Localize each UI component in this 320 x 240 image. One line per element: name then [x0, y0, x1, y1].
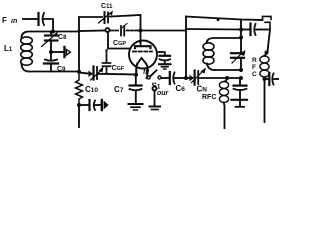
capacitor fil bypass — [160, 56, 171, 64]
triode tube V1 — [129, 31, 157, 79]
ground below terminal — [150, 107, 161, 110]
svg-text:C6: C6 — [176, 84, 186, 93]
junction RFC right bottom — [263, 77, 267, 81]
wire B plus lead down — [264, 79, 266, 122]
terminal below switch — [153, 87, 157, 106]
variable capacitor plate tank — [231, 38, 246, 70]
svg-text:L1: L1 — [4, 44, 13, 53]
wire bias lead down — [78, 105, 80, 127]
junction RFC tap — [225, 76, 229, 80]
svg-text:fil: fil — [143, 69, 150, 76]
capacitor coupling C (F in) — [39, 13, 45, 25]
junction plate — [139, 29, 143, 33]
svg-text:C10: C10 — [85, 85, 98, 94]
junction RFC right top — [265, 51, 269, 55]
capacitor blocking B plus — [251, 24, 271, 36]
capacitor C9 — [44, 52, 58, 72]
junction tank bottom / grid leak — [77, 70, 81, 74]
svg-text:C: C — [252, 71, 257, 78]
wire tank top — [22, 32, 80, 38]
capacitor key branch — [79, 100, 101, 110]
ground fil bypass — [159, 64, 171, 69]
label RFC stacked — [252, 57, 257, 78]
svg-text:CGP: CGP — [113, 40, 126, 47]
switch S1 — [147, 70, 169, 79]
wire tank bottom right — [215, 69, 242, 71]
top rail — [186, 17, 263, 21]
wire tube side branch — [157, 52, 165, 55]
capacitor tank bypass — [234, 78, 247, 99]
wire F in to coupling cap — [23, 18, 37, 20]
wire C10 to cathode junction — [98, 73, 137, 76]
svg-text:F: F — [252, 64, 256, 71]
variable capacitor C10 — [89, 67, 104, 81]
ground tank bypass — [232, 100, 248, 107]
riser wire left tank to top — [79, 17, 102, 72]
wire output branch — [265, 78, 269, 80]
wire cap to tank top corner — [44, 19, 53, 31]
junction riser grid wire — [78, 30, 81, 33]
svg-text:CGF: CGF — [112, 65, 125, 72]
rail B plus lower — [186, 28, 241, 31]
junction tap — [49, 50, 53, 54]
svg-text:RFC: RFC — [202, 94, 216, 101]
wire right section left vertical — [185, 17, 187, 79]
wire C11 to plate corner — [110, 15, 141, 31]
inductor RFC lower — [219, 78, 228, 129]
wire plate run to right section — [141, 30, 187, 32]
junction tank bottom — [239, 68, 243, 72]
node F IN label — [2, 16, 17, 25]
svg-text:C8: C8 — [58, 34, 67, 41]
svg-text:C11: C11 — [101, 3, 113, 10]
svg-text:in: in — [11, 18, 17, 25]
capacitor CGP dashed line — [111, 24, 139, 36]
riser plate tank — [240, 20, 242, 39]
grid lead wire — [108, 32, 130, 49]
variable capacitor CN — [186, 68, 206, 85]
svg-text:CN: CN — [197, 85, 208, 94]
inductor L1 — [21, 37, 33, 72]
inductor L2 tank — [203, 38, 241, 70]
junction cathode — [134, 73, 138, 77]
svg-text:C9: C9 — [57, 66, 66, 73]
variable capacitor C11 — [99, 11, 114, 24]
svg-text:our: our — [157, 90, 170, 97]
resistor R grid leak — [76, 72, 83, 105]
svg-text:R: R — [252, 57, 257, 64]
node circle grid — [106, 28, 110, 32]
wire riser to B cap — [241, 29, 249, 31]
variable capacitor C8 — [42, 32, 58, 52]
wire CN to tank bottom — [199, 77, 241, 79]
ground below C7 — [129, 104, 143, 110]
capacitor C7 — [130, 75, 142, 103]
wire right edge down — [268, 30, 271, 52]
junction rail — [217, 18, 220, 21]
svg-text:C7: C7 — [114, 85, 124, 94]
wire cathode run — [79, 73, 88, 74]
junction key jack — [77, 103, 81, 107]
junction at F-in drop — [51, 30, 55, 34]
inductor RFC right — [260, 53, 269, 78]
wire tank bottom — [29, 71, 79, 73]
capacitor C6 — [170, 72, 186, 84]
jack tap (bar and triangle) — [51, 47, 71, 57]
capacitor CGF dashed — [103, 50, 111, 74]
wire grid run — [79, 30, 105, 33]
jack plug key — [102, 100, 109, 110]
capacitor output — [269, 73, 279, 85]
junction C6 CN — [184, 76, 188, 80]
svg-text:F: F — [2, 16, 7, 25]
